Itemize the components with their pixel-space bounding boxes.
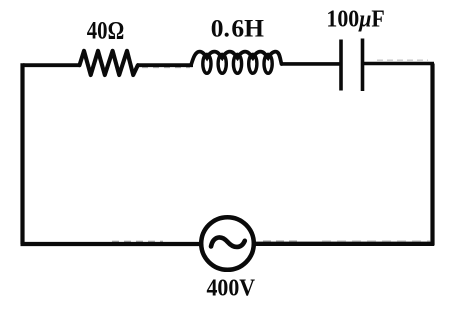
scan noise on bottom-left wire: [112, 240, 163, 242]
capacitor right plate: [361, 39, 365, 92]
inductor loop 1: [203, 54, 211, 73]
wire: inductor to capacitor: [281, 62, 341, 66]
resistor R (40 ohm) zigzag: [80, 51, 138, 75]
inductor L (0.6H) coil: hump arcs: [191, 52, 282, 66]
scan noise on bottom-right wire: [263, 240, 300, 242]
wire: resistor to inductor: [137, 63, 193, 67]
inductor loop 3: [233, 54, 241, 73]
wire: bottom-right segment from AC source: [254, 242, 434, 246]
svg-text:400V: 400V: [207, 274, 256, 301]
svg-text:0.6H: 0.6H: [211, 13, 264, 42]
wire: top-left lead from left corner to resistor: [23, 63, 80, 67]
wire: bottom-left segment to AC source: [21, 242, 202, 246]
capacitor C (100uF) left plate: [339, 40, 343, 91]
wire: right vertical side: [430, 64, 434, 246]
AC source circle: [201, 217, 254, 270]
scan noise below mid top wire: [142, 67, 190, 69]
wire: left vertical side: [20, 63, 24, 244]
inductor loop 5: [264, 54, 272, 73]
svg-text:100μF: 100μF: [326, 6, 384, 32]
wire: top-right lead from capacitor to right corner: [362, 62, 434, 66]
inductor loop 2: [218, 54, 226, 73]
svg-text:40Ω: 40Ω: [87, 15, 124, 44]
inductor loop 4: [249, 54, 257, 73]
scan noise on bottom-right wire 2: [322, 240, 430, 242]
AC source sine symbol: [211, 237, 245, 247]
scan noise dashes above top-right wire: [377, 59, 428, 61]
